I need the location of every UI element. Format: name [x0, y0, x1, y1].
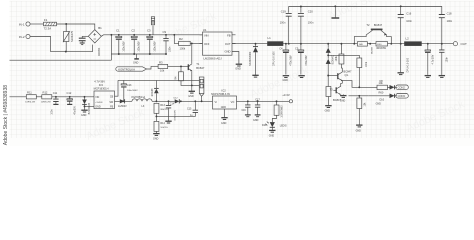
zener D6	[326, 55, 335, 86]
inductor L3	[131, 96, 152, 108]
svg-text:C4: C4	[279, 46, 283, 50]
diode D13 up	[152, 81, 200, 102]
svg-text:GND: GND	[340, 99, 346, 102]
svg-text:+3.3V: +3.3V	[282, 93, 290, 97]
svg-text:F1: F1	[44, 18, 48, 22]
ground under IC2	[221, 109, 228, 125]
transistor T1 BC847	[188, 62, 205, 72]
ground under U1	[235, 64, 242, 70]
inductor L2	[405, 37, 422, 73]
svg-text:100n: 100n	[52, 109, 54, 115]
resistor R6 vertical	[335, 43, 344, 68]
node zener tap to Q1 base	[327, 75, 329, 77]
ground under D2	[252, 75, 258, 77]
svg-text:R13: R13	[160, 104, 165, 107]
resistor R15	[272, 100, 283, 122]
ground bus under caps	[111, 53, 166, 55]
wire OFF node down to T1	[191, 43, 193, 63]
svg-text:BC847: BC847	[344, 70, 352, 74]
node top wire junction	[334, 5, 336, 7]
capacitor C5	[295, 43, 308, 78]
transistor Q1 BC847	[338, 68, 352, 83]
svg-text:SS34/SB360: SS34/SB360	[249, 51, 252, 66]
svg-text:C12: C12	[67, 91, 72, 95]
svg-text:470u/35V: 470u/35V	[290, 55, 293, 66]
svg-text:Q1.: Q1.	[345, 73, 349, 77]
svg-text:R11: R11	[27, 91, 32, 95]
wire U1 GND to ground	[232, 52, 239, 64]
earth line long	[9, 60, 112, 97]
resistor R12	[41, 91, 94, 104]
svg-text:GND: GND	[153, 138, 159, 141]
svg-text:FB: FB	[110, 105, 113, 108]
capacitor C12	[67, 91, 77, 115]
svg-text:OUT: OUT	[225, 42, 231, 46]
svg-text:C3: C3	[147, 28, 151, 32]
svg-text:100u/100V: 100u/100V	[127, 90, 138, 92]
node after L1	[288, 43, 290, 45]
node varistor bottom	[65, 51, 67, 53]
svg-text:D10: D10	[262, 124, 267, 127]
svg-text:GND: GND	[225, 50, 231, 54]
svg-text:C20: C20	[308, 10, 313, 14]
capacitor C23	[242, 100, 251, 116]
svg-text:GND: GND	[221, 122, 227, 125]
svg-text:C13: C13	[127, 84, 132, 87]
node zener chain top	[327, 43, 329, 45]
resistor R14	[154, 121, 168, 133]
svg-text:BC808: BC808	[372, 46, 374, 53]
watermark strip	[0, 0, 10, 146]
svg-text:C11: C11	[53, 91, 58, 95]
svg-text:CB: CB	[110, 95, 114, 98]
connector OUT	[453, 42, 467, 46]
resistor R2	[173, 34, 202, 50]
capacitor C17b	[253, 99, 261, 122]
capacitor C16	[398, 6, 413, 43]
svg-text:R12: R12	[43, 91, 48, 95]
node after L3	[155, 100, 157, 102]
svg-text:BZX84C: BZX84C	[332, 55, 335, 64]
ground under T3 base	[340, 94, 347, 102]
ground drop at 400	[398, 44, 404, 75]
svg-text:C14: C14	[170, 104, 175, 106]
svg-text:LM2596S-ADJ: LM2596S-ADJ	[204, 56, 223, 60]
capacitor C15	[187, 100, 198, 117]
IC3 MCP16301	[94, 79, 115, 108]
svg-text:GND: GND	[253, 119, 259, 122]
diode D10b	[368, 94, 397, 102]
svg-text:100n: 100n	[280, 22, 286, 25]
svg-text:10R/0.2W: 10R/0.2W	[41, 102, 52, 104]
bridge rectifier B1	[88, 26, 102, 56]
ground under R14	[153, 134, 160, 141]
svg-text:100u/50V: 100u/50V	[153, 41, 156, 52]
IC2 output rail	[237, 100, 290, 102]
node D2	[255, 43, 257, 45]
svg-text:T1: T1	[196, 62, 200, 66]
transistor T2 BC847 over shunt	[353, 23, 392, 45]
capacitor C1	[116, 28, 126, 55]
svg-text:10R/0.2W: 10R/0.2W	[25, 102, 36, 104]
zener D11	[82, 96, 91, 114]
svg-text:100k: 100k	[366, 61, 368, 67]
svg-text:MCP16301H: MCP16301H	[94, 86, 109, 90]
node R2-OFF junction	[191, 42, 193, 44]
wire zener to Q1 base	[328, 75, 338, 77]
svg-text:GND: GND	[221, 106, 227, 109]
svg-text:IN-1: IN-1	[19, 22, 25, 26]
svg-text:100n: 100n	[169, 46, 172, 52]
ground under T1	[188, 72, 195, 99]
resistor R4	[174, 65, 192, 85]
svg-text:L1: L1	[268, 36, 272, 40]
svg-text:GND: GND	[133, 61, 139, 64]
resistor R3	[158, 60, 190, 72]
svg-text:D10: D10	[380, 99, 385, 102]
svg-text:C15: C15	[187, 107, 192, 110]
svg-text:100k: 100k	[335, 55, 338, 61]
connector IN-1	[19, 22, 30, 26]
node FB divider	[155, 112, 195, 121]
wire rail tap down to earth	[110, 35, 112, 60]
svg-text:CON3: CON3	[398, 94, 406, 98]
svg-text:DF06S: DF06S	[97, 47, 101, 55]
svg-text:DPU-5.0-100: DPU-5.0-100	[273, 51, 276, 66]
node R8 top	[358, 86, 360, 88]
capacitor C4	[279, 43, 292, 82]
svg-text:MCP1700B-3.3V: MCP1700B-3.3V	[211, 93, 230, 96]
op IC U1 LM2596	[200, 28, 236, 61]
svg-text:VO: VO	[231, 101, 235, 104]
svg-text:R14: R14	[160, 122, 165, 125]
svg-text:15uH/650mA: 15uH/650mA	[131, 96, 145, 99]
flag row2	[396, 94, 409, 99]
wire L2 to OUT	[421, 43, 453, 45]
resistor R8 vertical to gnd	[356, 95, 367, 133]
svg-text:GND: GND	[235, 68, 241, 71]
svg-text:C1: C1	[116, 28, 120, 32]
flag row1	[396, 85, 409, 90]
wire Q1 emitter to row1	[342, 81, 377, 88]
svg-text:98k/1%: 98k/1%	[160, 109, 167, 111]
ground marker on bus	[133, 54, 139, 64]
wire IN-2 down and along bottom	[30, 37, 92, 52]
svg-text:OUT: OUT	[461, 42, 468, 46]
zener D5	[326, 44, 331, 59]
svg-text:OFF: OFF	[204, 42, 210, 46]
transistor T3 BC847	[330, 83, 343, 102]
ground stub near R60	[376, 103, 382, 106]
diode D12	[118, 99, 127, 108]
resistor R9 T2 base	[357, 42, 373, 54]
svg-text:100n/100V: 100n/100V	[175, 109, 177, 120]
svg-text:C19: C19	[281, 10, 286, 14]
capacitor C13 bootstrap	[115, 80, 157, 102]
wire IN-1 to fuse	[30, 23, 43, 25]
diode D8	[380, 80, 398, 90]
svg-text:C16: C16	[406, 11, 411, 15]
svg-text:+5VEN: +5VEN	[95, 102, 102, 104]
node fuse-varistor junction	[65, 23, 67, 25]
bottom rail SW	[115, 100, 213, 102]
wire T3 base stub	[333, 89, 336, 91]
svg-text:0R03/3W: 0R03/3W	[376, 48, 386, 50]
svg-text:BC847: BC847	[374, 23, 383, 27]
LED D10led	[262, 122, 287, 131]
svg-text:GND: GND	[356, 129, 362, 132]
capacitor CX across line	[79, 36, 89, 44]
varistor RV1 S10K275	[63, 24, 74, 52]
svg-text:S10K275: S10K275	[70, 30, 74, 42]
svg-text:GND: GND	[81, 114, 87, 117]
svg-text:IN-2: IN-2	[19, 35, 25, 39]
svg-text:B1: B1	[98, 26, 102, 30]
svg-text:GND: GND	[95, 105, 101, 108]
capacitor C20	[298, 6, 314, 25]
svg-text:VIN: VIN	[95, 96, 99, 99]
svg-text:VIN: VIN	[204, 34, 209, 38]
svg-text:GND: GND	[269, 134, 275, 137]
svg-text:LED/G: LED/G	[280, 125, 287, 127]
svg-text:1N4148: 1N4148	[152, 88, 154, 97]
svg-text:10k: 10k	[160, 69, 165, 73]
svg-text:100n: 100n	[447, 20, 453, 23]
capacitor C11	[52, 91, 59, 115]
resistor R7 row1	[377, 81, 390, 94]
wire shunt to L2	[388, 43, 405, 45]
svg-text:4.7V-36V: 4.7V-36V	[94, 79, 105, 83]
main DC rail from bridge to U1	[101, 35, 202, 37]
svg-text:DPU-0.5-100: DPU-0.5-100	[407, 57, 410, 72]
stub antenna	[331, 6, 339, 18]
svg-text:GND: GND	[188, 95, 194, 98]
svg-text:C2: C2	[131, 28, 135, 32]
wire fuse to bridge top	[57, 24, 95, 30]
feedback top wire	[289, 7, 442, 44]
test pads TP2	[192, 77, 204, 102]
svg-text:C5: C5	[295, 46, 299, 50]
resistor R8a vertical upper	[327, 54, 368, 87]
diode D2 SS34	[249, 44, 258, 75]
node C16 top	[400, 5, 402, 7]
ground under D11	[81, 110, 88, 117]
fuse F1	[44, 18, 57, 31]
capacitor C18	[439, 6, 453, 43]
wire LED row2	[349, 95, 369, 97]
svg-text:BZX84C36: BZX84C36	[89, 102, 91, 114]
shunt resistor R10	[376, 42, 388, 51]
IC2 MCP1700	[211, 89, 236, 109]
svg-text:100n: 100n	[406, 20, 412, 23]
svg-text:T2.3A: T2.3A	[44, 27, 52, 31]
svg-text:47u/50V: 47u/50V	[74, 106, 76, 115]
svg-text:T2: T2	[366, 23, 370, 27]
node after shunt	[400, 43, 402, 45]
svg-text:100n: 100n	[308, 22, 314, 25]
capacitor C3	[147, 28, 157, 55]
resistor R17 below zeners	[325, 87, 332, 113]
capacitor C14	[165, 100, 176, 123]
svg-text:1A/600V: 1A/600V	[118, 105, 127, 108]
resistor R13	[154, 103, 168, 113]
svg-text:BC847: BC847	[196, 66, 205, 70]
svg-text:C16: C16	[242, 110, 247, 112]
faint tile watermarks	[84, 0, 466, 143]
svg-text:IC2: IC2	[222, 89, 227, 93]
inductor L1	[268, 36, 284, 66]
capacitor C19	[280, 10, 292, 25]
svg-text:10k/1%: 10k/1%	[160, 127, 167, 129]
svg-text:R60: R60	[379, 91, 384, 95]
net flag KONTROLKA	[116, 66, 158, 71]
svg-text:100k: 100k	[180, 46, 186, 50]
jumper JP1 above rail	[151, 17, 154, 35]
svg-text:KONTROLKA: KONTROLKA	[118, 67, 135, 71]
svg-text:C18: C18	[447, 11, 452, 15]
svg-text:CON2: CON2	[398, 86, 406, 90]
svg-text:4.7u/35V: 4.7u/35V	[431, 54, 434, 64]
capacitor C21	[425, 43, 435, 78]
svg-text:100u/50V: 100u/50V	[122, 41, 125, 52]
svg-text:GND: GND	[376, 103, 382, 106]
svg-text:470u/35V: 470u/35V	[305, 55, 308, 66]
svg-text:VI: VI	[215, 101, 218, 104]
wire U1 OUT rail	[232, 43, 376, 45]
ground under LED	[269, 130, 276, 137]
svg-text:L2: L2	[406, 37, 410, 41]
svg-text:R3: R3	[159, 60, 163, 64]
diode D14	[174, 97, 180, 103]
svg-text:FB: FB	[227, 34, 231, 38]
svg-text:U1: U1	[203, 28, 207, 32]
bottom feed rail	[9, 96, 27, 98]
capacitor C22	[439, 43, 449, 78]
wire IC3 GND to D11 gnd	[85, 105, 95, 107]
svg-text:Adobe Stock | #459838938: Adobe Stock | #459838938	[3, 85, 9, 145]
svg-text:100n: 100n	[445, 56, 448, 62]
connector IN-2	[19, 34, 30, 38]
supply flag +3.3V	[282, 93, 292, 103]
capacitor C2	[131, 28, 141, 55]
svg-text:GND: GND	[325, 110, 331, 113]
resistor R11	[25, 91, 42, 104]
svg-text:100u/50V: 100u/50V	[138, 41, 141, 52]
capacitor C9	[163, 30, 172, 55]
svg-text:IC3: IC3	[99, 83, 104, 87]
svg-text:100R/0W63: 100R/0W63	[281, 105, 283, 118]
